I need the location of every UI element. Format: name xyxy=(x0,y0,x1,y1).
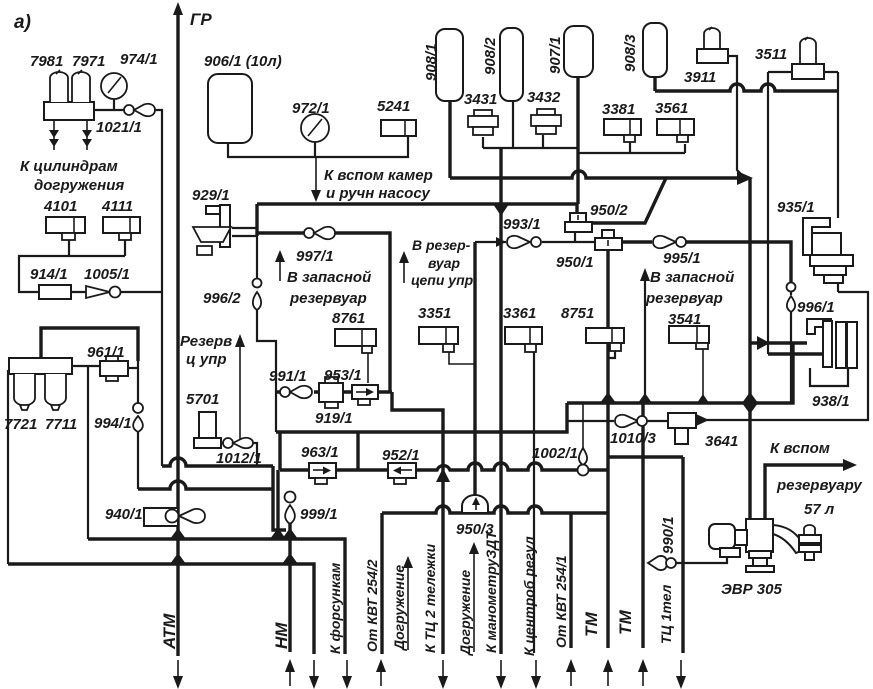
wire 997/1 line y233 xyxy=(257,233,390,392)
wire 3911 drop xyxy=(727,56,742,175)
node tent 290/564 xyxy=(282,553,298,564)
svg-text:1010/3: 1010/3 xyxy=(610,430,657,447)
svg-text:7981: 7981 xyxy=(30,53,63,70)
node flow arrow on line 443 xyxy=(436,468,450,482)
svg-text:цепи упр: цепи упр xyxy=(411,272,474,288)
wire Dogruzhenie arrow 1 xyxy=(407,565,409,650)
valve 3432 xyxy=(531,109,561,134)
valve 3511 xyxy=(792,37,824,79)
svg-text:а): а) xyxy=(14,12,31,33)
check valve 995/1 xyxy=(653,236,686,248)
svg-text:999/1: 999/1 xyxy=(300,506,338,523)
distributor EVR 305 xyxy=(709,519,821,572)
svg-text:Догружение: Догружение xyxy=(457,570,473,656)
svg-text:ТМ: ТМ xyxy=(616,609,635,635)
valve 963/1 xyxy=(309,463,336,484)
reservoir 907/1 xyxy=(564,26,593,77)
svg-text:АТМ: АТМ xyxy=(160,613,179,650)
valve 961/1 xyxy=(100,356,128,381)
svg-text:5701: 5701 xyxy=(186,391,219,408)
wire bus y403 xyxy=(567,343,793,403)
svg-text:972/1: 972/1 xyxy=(292,100,330,117)
wire 1012/1 line y443 xyxy=(221,443,257,466)
node arrow junction into x750 xyxy=(737,171,753,185)
svg-text:1012/1: 1012/1 xyxy=(216,450,262,467)
wire 972/1 gauge stem xyxy=(314,142,316,157)
node arrow on line242 xyxy=(496,237,506,247)
wire 907/1 stem xyxy=(576,77,579,204)
valve 3431 xyxy=(468,110,498,135)
check valve 1005/1 xyxy=(86,286,121,298)
wire vertical x88 xyxy=(87,366,89,539)
wire vertical 535 3361 drop xyxy=(531,344,534,653)
node tent 178/539 xyxy=(170,528,186,539)
svg-text:К вспом камер: К вспом камер xyxy=(324,167,433,184)
svg-text:5241: 5241 xyxy=(377,98,410,115)
svg-text:и ручн насосу: и ручн насосу xyxy=(326,185,430,202)
wire bus y91 xyxy=(655,77,837,91)
svg-text:919/1: 919/1 xyxy=(315,410,353,427)
svg-text:догружения: догружения xyxy=(34,177,124,194)
node arrow 997/1 xyxy=(279,258,281,281)
wire manifold to 961/1 xyxy=(72,366,138,368)
reservoir 908/3 xyxy=(643,23,667,77)
svg-text:8761: 8761 xyxy=(332,310,365,327)
cock 4111 xyxy=(103,217,140,240)
wire line y148 xyxy=(483,101,578,148)
svg-text:ЭВР 305: ЭВР 305 xyxy=(721,581,782,598)
wire vertical 750 xyxy=(748,178,751,520)
svg-text:ТМ: ТМ xyxy=(582,611,601,637)
wire 994/1 vertical x138 xyxy=(137,361,139,489)
wire bus C y513 xyxy=(382,506,608,513)
wire bus y564 xyxy=(8,564,314,654)
valve 952/1 xyxy=(388,463,416,484)
svg-text:К цилиндрам: К цилиндрам xyxy=(20,158,118,175)
wire 4111 stem xyxy=(124,239,126,256)
node Y junction 501/204 xyxy=(493,204,509,216)
svg-text:Догружение: Догружение xyxy=(391,565,407,651)
svg-text:952/1: 952/1 xyxy=(382,447,420,464)
svg-text:3351: 3351 xyxy=(418,305,451,322)
wire vertical 257 upper xyxy=(255,204,258,236)
wire 950/2 right line merging to upper bus xyxy=(592,178,666,223)
valve 5241 xyxy=(381,120,416,136)
valve 990/1 xyxy=(648,556,676,570)
check valve 1012/1 xyxy=(223,438,253,448)
svg-text:908/1: 908/1 xyxy=(423,43,440,81)
svg-text:950/2: 950/2 xyxy=(590,202,628,219)
check valve 993/1 xyxy=(507,236,541,248)
svg-text:вуар: вуар xyxy=(428,255,460,271)
check valve 991/1 xyxy=(280,386,312,398)
wire vertical 475 xyxy=(473,242,476,496)
gauge 974/1 xyxy=(94,73,127,110)
svg-text:3641: 3641 xyxy=(705,433,738,450)
wire 935 rect left edge xyxy=(767,72,769,354)
svg-text:К манометруЗДТ: К манометруЗДТ xyxy=(483,530,499,653)
wire TM vertical 643 xyxy=(641,403,644,648)
wire vertical 273 to NM xyxy=(273,466,286,530)
node tent 178/564 xyxy=(170,553,186,564)
wire 1002/1 stub xyxy=(582,403,584,448)
wire TC1 vertical 683 xyxy=(681,457,684,653)
wire bus y178 upper xyxy=(450,171,740,178)
svg-text:991/1: 991/1 xyxy=(269,368,307,385)
node tent 608/403 xyxy=(600,392,616,403)
wire 7721-block top line y328 xyxy=(41,328,138,361)
svg-text:3381: 3381 xyxy=(602,101,635,118)
reservoir 908/1 xyxy=(436,29,463,101)
valve 996/2 xyxy=(253,279,262,311)
svg-text:резервуару: резервуару xyxy=(776,477,862,494)
svg-text:996/1: 996/1 xyxy=(797,299,835,316)
svg-text:974/1: 974/1 xyxy=(120,51,158,68)
svg-text:В запасной: В запасной xyxy=(287,269,371,286)
svg-text:914/1: 914/1 xyxy=(30,266,68,283)
wire 4101 stem xyxy=(68,240,70,256)
svg-text:резервуар: резервуар xyxy=(289,290,367,307)
svg-text:907/1: 907/1 xyxy=(547,36,564,74)
valve 5701 xyxy=(194,412,221,448)
valve block 798x manifold xyxy=(44,70,94,150)
wire line y457 xyxy=(608,455,683,458)
svg-text:3432: 3432 xyxy=(527,89,561,106)
valve 3541 xyxy=(669,326,709,349)
svg-text:Резерв: Резерв xyxy=(180,333,232,350)
wire 993/1 line y242 xyxy=(475,241,595,243)
svg-text:7721: 7721 xyxy=(4,416,37,433)
wire vertical 608 xyxy=(606,250,609,648)
wire bus A y432 xyxy=(276,403,567,432)
node GR top arrow xyxy=(173,2,183,15)
svg-text:К вспом: К вспом xyxy=(770,440,830,457)
wire line y354 xyxy=(768,352,823,355)
reservoir 906/1 xyxy=(208,74,252,143)
relay 938/1 xyxy=(807,319,857,386)
valve 3641 xyxy=(668,413,696,444)
valve 919/1 arrow box xyxy=(352,385,378,405)
wire 8761 stem xyxy=(367,346,369,383)
svg-text:ТЦ 1тел: ТЦ 1тел xyxy=(658,584,674,644)
valve 999/1 xyxy=(285,492,296,525)
node arrow v rezervuar cepi upr xyxy=(403,260,405,283)
valve 3381 xyxy=(604,119,641,142)
wire 990/1 line y563 xyxy=(676,557,727,563)
wire 996/2 vertical x257 xyxy=(257,236,276,432)
svg-text:938/1: 938/1 xyxy=(812,393,850,410)
svg-text:993/1: 993/1 xyxy=(503,216,541,233)
check valve 997/1 xyxy=(304,227,335,239)
svg-text:3911: 3911 xyxy=(684,69,716,86)
valve 996/1 xyxy=(787,283,796,313)
svg-text:935/1: 935/1 xyxy=(777,199,815,216)
svg-text:3361: 3361 xyxy=(503,305,536,322)
wire 996/1 vertical x792 xyxy=(790,289,792,403)
svg-text:963/1: 963/1 xyxy=(301,444,339,461)
svg-text:929/1: 929/1 xyxy=(192,187,230,204)
valve 3351 xyxy=(419,327,458,352)
svg-text:ц упр: ц упр xyxy=(186,351,227,368)
svg-text:57 л: 57 л xyxy=(804,501,835,518)
wire 1021/1 drop to bus466 xyxy=(155,110,162,466)
wire vertical 280 xyxy=(278,432,281,470)
node arrow to aux chambers xyxy=(315,157,317,194)
valve 3561 xyxy=(657,119,694,142)
wire bus y489 xyxy=(138,481,273,489)
svg-text:К центроб регул: К центроб регул xyxy=(521,536,537,656)
wire bus y466 xyxy=(162,458,273,466)
svg-text:1002/1: 1002/1 xyxy=(532,445,578,462)
bottom arrows xyxy=(173,659,686,689)
wire line y153 xyxy=(578,142,685,153)
svg-text:940/1: 940/1 xyxy=(105,506,143,523)
svg-text:3511: 3511 xyxy=(755,46,787,63)
valve 953/1 xyxy=(319,377,343,408)
svg-text:990/1: 990/1 xyxy=(660,516,677,554)
wire bus B y470 xyxy=(280,463,608,470)
wire bus y539 xyxy=(88,539,345,654)
node flow arrow on line 343 xyxy=(757,336,770,350)
svg-text:7971: 7971 xyxy=(72,53,105,70)
svg-text:997/1: 997/1 xyxy=(296,248,334,265)
check valve 1021/1 xyxy=(124,104,155,116)
wire vertical 501 xyxy=(499,148,502,654)
valve block 7721 7711 xyxy=(9,358,72,410)
svg-text:3541: 3541 xyxy=(668,311,701,328)
wire vertical 278 to bus539 xyxy=(276,470,279,534)
wire 995/1 line y240 xyxy=(622,242,791,282)
svg-text:НМ: НМ xyxy=(272,622,291,649)
svg-text:1021/1: 1021/1 xyxy=(96,119,142,136)
svg-text:От КВТ 254/1: От КВТ 254/1 xyxy=(553,555,569,648)
wire 929/1 double link xyxy=(232,228,257,236)
svg-text:908/3: 908/3 xyxy=(622,34,639,72)
cock 940/1 xyxy=(144,508,205,526)
valve 1002/1 xyxy=(578,448,589,476)
svg-text:908/2: 908/2 xyxy=(482,37,499,75)
svg-text:961/1: 961/1 xyxy=(87,344,125,361)
node tent 290/539 xyxy=(282,528,298,539)
svg-text:3561: 3561 xyxy=(655,100,688,117)
wire line 381 down xyxy=(380,513,383,654)
svg-text:В запасной: В запасной xyxy=(650,269,734,286)
wire 950/2 bottom stub xyxy=(574,231,576,242)
relay 935/1 xyxy=(803,218,853,283)
svg-text:3431: 3431 xyxy=(464,91,497,108)
wire 991/1 line y392 xyxy=(276,390,392,393)
svg-text:953/1: 953/1 xyxy=(324,367,362,384)
valve 3911 xyxy=(697,27,728,63)
wire 1010/3 line y421 xyxy=(567,283,868,421)
wire V zapasnoy arrow line xyxy=(644,278,646,403)
wire bus y204 xyxy=(257,204,577,217)
svg-text:От КВТ 254/2: От КВТ 254/2 xyxy=(364,559,380,652)
svg-text:906/1 (10л): 906/1 (10л) xyxy=(204,53,282,70)
valve 914/1 xyxy=(39,285,71,299)
wire GR/ATM main vertical xyxy=(176,14,179,656)
svg-text:8751: 8751 xyxy=(561,305,594,322)
wire 906/1 stem and y157 line xyxy=(228,136,408,157)
svg-text:1005/1: 1005/1 xyxy=(84,266,130,283)
svg-text:ГР: ГР xyxy=(190,10,212,29)
valve 950/2 xyxy=(565,213,592,232)
node tent 645/403 xyxy=(638,393,652,403)
valve 950/3 xyxy=(462,495,488,513)
svg-text:К ТЦ 2 тележки: К ТЦ 2 тележки xyxy=(422,543,438,653)
node junction 750/403 xyxy=(742,392,758,403)
valve 950/1 xyxy=(595,230,622,250)
valve 3361 xyxy=(505,327,542,352)
svg-text:4111: 4111 xyxy=(101,198,133,215)
svg-text:996/2: 996/2 xyxy=(203,290,241,307)
svg-text:995/1: 995/1 xyxy=(663,250,701,267)
wire y256 manifold line xyxy=(19,256,162,292)
valve 994/1 xyxy=(133,403,143,432)
cock 4101 xyxy=(46,217,85,240)
distributor 929/1 xyxy=(193,205,231,255)
gauge 972/1 xyxy=(301,114,329,142)
svg-text:994/1: 994/1 xyxy=(94,415,132,432)
wire 953/1 elbow and vertical 443 xyxy=(392,392,443,654)
valve 8761 xyxy=(335,329,376,353)
wire NM vertical x290 xyxy=(288,523,291,652)
wire Dogruzhenie arrow 2 xyxy=(473,551,475,652)
svg-text:К форсункам: К форсункам xyxy=(327,562,343,654)
wire K vspom line xyxy=(765,465,846,520)
svg-text:7711: 7711 xyxy=(45,416,77,433)
check valve 1010/3 xyxy=(615,415,647,427)
wire line y343 xyxy=(750,341,807,344)
reservoir 908/2 xyxy=(500,28,523,101)
svg-text:В резер-: В резер- xyxy=(412,237,471,253)
svg-text:950/1: 950/1 xyxy=(556,254,594,271)
svg-text:резервуар: резервуар xyxy=(645,290,723,307)
valve 8751 xyxy=(586,328,624,351)
wire 3351 link xyxy=(449,352,475,364)
wire vertical x5 left outline xyxy=(7,370,9,564)
wire vertical 358 xyxy=(356,432,359,470)
wire vertical 571 xyxy=(569,513,572,648)
wire 908/1 stem xyxy=(448,101,451,178)
wire 3541 drop xyxy=(702,349,704,403)
wire 8751 link xyxy=(608,351,615,358)
wire 935 rect right edge and top xyxy=(768,72,838,218)
svg-text:4101: 4101 xyxy=(43,198,77,215)
wire Rezerv line x240 xyxy=(239,344,241,443)
node tent 703/403 xyxy=(697,394,709,403)
